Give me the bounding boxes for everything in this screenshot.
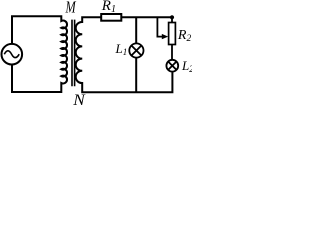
svg-text:L2: L2 (181, 58, 192, 74)
svg-text:N: N (72, 92, 86, 107)
svg-text:L1: L1 (115, 41, 128, 57)
svg-text:M: M (65, 0, 77, 17)
svg-text:R2: R2 (177, 28, 192, 44)
svg-text:R1: R1 (101, 0, 116, 15)
